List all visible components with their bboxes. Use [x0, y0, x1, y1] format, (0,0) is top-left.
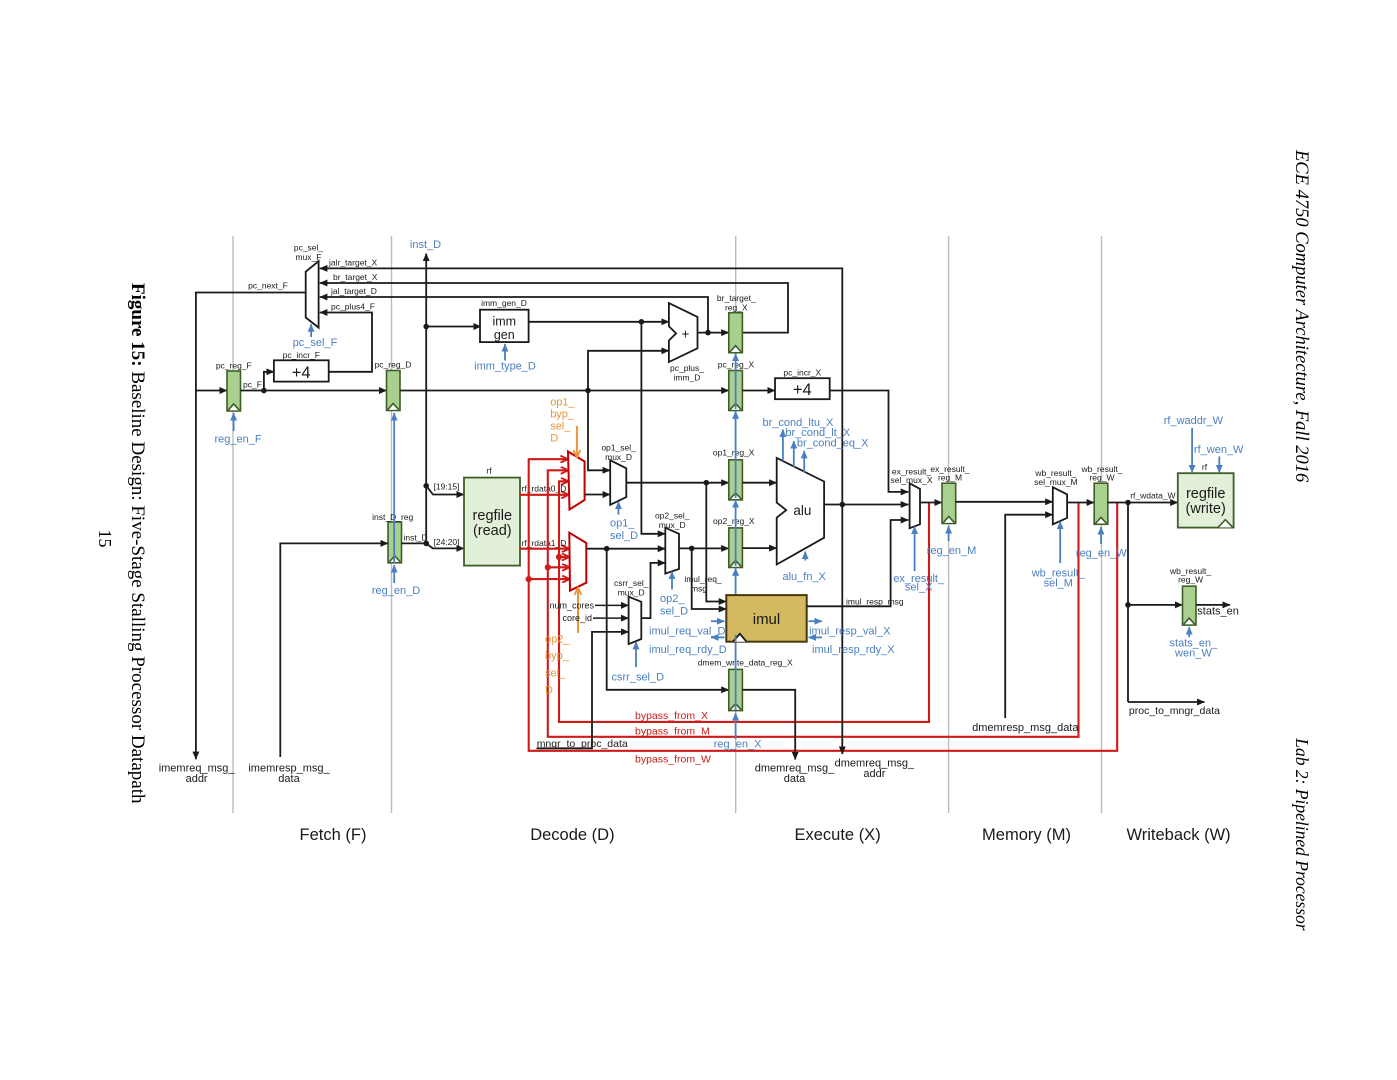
svg-text:sel_: sel_	[550, 421, 571, 433]
wire jalr_target_X	[320, 268, 843, 504]
wire core_id	[593, 617, 629, 619]
wire stats branch	[1128, 503, 1183, 703]
adder pc_incr_F	[274, 360, 329, 381]
svg-text:op2_: op2_	[545, 634, 570, 646]
svg-text:pc_sel_F: pc_sel_F	[293, 337, 338, 349]
wire inst to imm gen	[426, 326, 481, 328]
mux wb_result_sel_mux_M	[1053, 487, 1067, 524]
svg-text:core_id: core_id	[562, 613, 592, 623]
control imul_resp_rdy_X	[809, 636, 823, 638]
control reg_en_M	[948, 526, 950, 541]
stage divider Execute	[735, 236, 737, 813]
svg-text:addr: addr	[863, 768, 885, 780]
wire rs2 24:20	[426, 543, 464, 548]
svg-text:bypass_from_M: bypass_from_M	[635, 726, 710, 738]
junction op2 dmemdata tap	[604, 546, 610, 552]
wire pc_F to incr	[264, 372, 274, 391]
stage divider Fetch	[232, 236, 234, 813]
pc_sel_mux_F	[306, 261, 319, 327]
junction inst 24:20	[423, 541, 429, 547]
svg-text:sel_X: sel_X	[905, 582, 933, 594]
wire reg_M out	[956, 501, 1053, 503]
control op2_byp_sel_D	[577, 588, 579, 634]
svg-text:csrr_sel_D: csrr_sel_D	[612, 671, 665, 683]
mux op2 bypass	[569, 533, 586, 591]
svg-text:num_cores: num_cores	[549, 601, 594, 611]
control pc_sel_F	[310, 324, 312, 337]
svg-text:imm_type_D: imm_type_D	[474, 361, 536, 373]
svg-text:pc_plus4_F: pc_plus4_F	[331, 301, 375, 311]
svg-text:rf_wdata_W: rf_wdata_W	[1130, 490, 1175, 500]
svg-text:mux_F: mux_F	[296, 252, 322, 262]
wire wb mux out	[1067, 502, 1094, 504]
svg-text:mngr_to_proc_data: mngr_to_proc_data	[537, 738, 628, 750]
svg-text:(write): (write)	[1186, 501, 1226, 517]
mux op1_sel_mux_D	[610, 460, 626, 505]
wire mngr_to_proc_data	[537, 632, 629, 748]
control imul_req_val_D	[711, 620, 725, 622]
svg-text:inst_D: inst_D	[410, 239, 441, 251]
control stats_en_wen_W	[1188, 627, 1190, 637]
block imm gen	[480, 310, 529, 342]
svg-text:sel_D: sel_D	[610, 530, 638, 542]
svg-text:op1_: op1_	[550, 397, 575, 409]
svg-text:gen: gen	[494, 328, 515, 342]
junction bypass W op2	[526, 576, 532, 582]
svg-text:pc_incr_F: pc_incr_F	[283, 350, 320, 360]
control br_cond_lt_X	[793, 441, 795, 467]
junction op1 imul tap	[704, 480, 710, 486]
svg-text:imul_resp_rdy_X: imul_resp_rdy_X	[812, 644, 895, 656]
wire alu out	[824, 504, 908, 506]
svg-text:reg_X: reg_X	[725, 303, 748, 313]
svg-text:op2_reg_X: op2_reg_X	[713, 516, 755, 526]
register wb_result_reg_W stats	[1183, 586, 1197, 625]
register pc_reg_X	[729, 371, 743, 411]
svg-text:Writeback (W): Writeback (W)	[1126, 826, 1230, 844]
control reg_en_D	[393, 413, 395, 583]
register dmem_write_data_reg_X	[729, 669, 743, 710]
register inst_D_reg	[388, 522, 402, 563]
block imul	[726, 595, 806, 642]
svg-text:mux_D: mux_D	[618, 587, 645, 597]
control op2_sel_D	[671, 572, 673, 590]
svg-text:Memory (M): Memory (M)	[982, 826, 1071, 844]
adder pc_incr_X	[775, 378, 830, 399]
svg-text:[24:20]: [24:20]	[434, 537, 460, 547]
svg-text:data: data	[278, 773, 300, 785]
svg-text:reg_W: reg_W	[1178, 575, 1203, 585]
stage divider Writeback	[1101, 236, 1103, 813]
svg-text:reg_M: reg_M	[938, 473, 962, 483]
junction stats branch	[1125, 602, 1131, 608]
svg-text:imul_resp_val_X: imul_resp_val_X	[809, 625, 891, 637]
wire dmem write out	[742, 690, 795, 760]
svg-text:pc_sel_: pc_sel_	[294, 243, 324, 253]
svg-text:pc_next_F: pc_next_F	[248, 281, 288, 291]
svg-text:imul: imul	[753, 611, 781, 628]
wire reg_en_X through imul notch	[735, 635, 737, 641]
wire rf_rdata0_D	[520, 494, 569, 496]
junction inst_D to immgen	[423, 324, 429, 330]
wire bypass_from_X	[559, 481, 929, 722]
svg-text:sel_D: sel_D	[660, 606, 688, 618]
svg-text:imul_resp_msg: imul_resp_msg	[846, 596, 904, 606]
svg-text:br_cond_eq_X: br_cond_eq_X	[797, 438, 869, 450]
svg-text:reg_en_F: reg_en_F	[214, 434, 261, 446]
wire pc_F	[241, 390, 387, 392]
control alu_fn_X	[804, 552, 806, 561]
svg-text:reg_en_M: reg_en_M	[927, 545, 977, 557]
svg-text:imm: imm	[492, 315, 516, 329]
wire op1_reg to alu	[742, 482, 776, 484]
svg-text:15: 15	[95, 530, 115, 548]
svg-text:bypass_from_W: bypass_from_W	[635, 754, 711, 766]
svg-text:csrr_sel_: csrr_sel_	[614, 578, 649, 588]
stage divider Decode	[391, 236, 393, 813]
svg-text:byp_: byp_	[550, 409, 575, 421]
junction imm out	[639, 319, 645, 325]
svg-text:imul_req_val_D: imul_req_val_D	[649, 625, 725, 637]
control wb_result_sel_M	[1059, 522, 1061, 563]
svg-text:inst_D: inst_D	[404, 532, 428, 542]
register br_target_reg_X	[729, 313, 743, 353]
junction adder out	[705, 330, 711, 336]
block regfile write	[1178, 473, 1234, 527]
svg-text:op2_sel_: op2_sel_	[655, 511, 690, 521]
svg-text:imul_req_: imul_req_	[684, 574, 722, 584]
svg-text:msg: msg	[691, 584, 707, 594]
svg-text:stats_en: stats_en	[1197, 606, 1239, 618]
wire br_target_X	[320, 283, 788, 333]
wire imm out	[529, 322, 669, 534]
wire op1 to reg	[626, 482, 729, 484]
wire ex mux out	[920, 502, 942, 504]
control csrr_sel_D	[635, 642, 637, 667]
wire dmemresp_msg_data	[1005, 515, 1053, 718]
register pc_reg_D	[387, 371, 401, 411]
svg-text:rf_wen_W: rf_wen_W	[1194, 444, 1244, 456]
svg-text:+: +	[682, 327, 690, 342]
svg-text:bypass_from_X: bypass_from_X	[635, 710, 708, 722]
svg-text:op1_: op1_	[610, 518, 635, 530]
junction op2 imul tap	[689, 546, 695, 552]
wire imemresp_msg_data	[280, 543, 388, 757]
junction alu out	[840, 502, 846, 508]
wire pc_reg_X to incr	[742, 390, 775, 392]
adder pc_plus_imm_D	[669, 303, 698, 362]
svg-text:mux_D: mux_D	[659, 520, 686, 530]
svg-text:regfile: regfile	[473, 508, 513, 524]
control imm_type_D	[504, 344, 506, 361]
control ex_result_sel_X	[914, 526, 916, 571]
wire op2 bypass mux out	[586, 548, 665, 550]
svg-text:pc_incr_X: pc_incr_X	[783, 367, 821, 377]
control rf_waddr_W	[1191, 428, 1193, 473]
svg-text:+4: +4	[793, 381, 812, 399]
junction inst 19:15	[423, 483, 429, 489]
register op2_reg_X	[729, 528, 743, 568]
svg-text:data: data	[784, 773, 806, 785]
svg-text:br_target_: br_target_	[717, 293, 756, 303]
block regfile read	[464, 478, 520, 566]
svg-text:sel_: sel_	[545, 668, 566, 680]
wire op2 to imul	[692, 548, 727, 609]
svg-text:ECE 4750 Computer Architecture: ECE 4750 Computer Architecture, Fall 201…	[1291, 149, 1311, 483]
svg-text:rf: rf	[486, 466, 492, 476]
junction pc_D	[585, 388, 591, 394]
svg-text:alu_fn_X: alu_fn_X	[782, 571, 826, 583]
control op1_sel_D	[618, 502, 620, 515]
svg-text:pc_reg_D: pc_reg_D	[375, 359, 412, 369]
svg-text:Decode (D): Decode (D)	[530, 826, 614, 844]
junction rf_wdata_W	[1125, 500, 1131, 506]
svg-text:reg_en_W: reg_en_W	[1076, 547, 1127, 559]
svg-text:(read): (read)	[473, 523, 512, 539]
wire stats_en	[1196, 604, 1230, 606]
svg-text:pc_plus_: pc_plus_	[670, 363, 704, 373]
wire rs1 19:15	[426, 486, 464, 495]
svg-text:rf_waddr_W: rf_waddr_W	[1164, 415, 1224, 427]
junction bypass M op2	[545, 564, 551, 570]
register op1_reg_X	[729, 460, 743, 500]
svg-text:reg_en_D: reg_en_D	[372, 585, 420, 597]
svg-text:regfile: regfile	[1186, 486, 1226, 502]
svg-text:op2_: op2_	[660, 593, 685, 605]
svg-text:addr: addr	[186, 773, 208, 785]
wire bypass_from_W	[529, 459, 1117, 751]
register ex_result_reg_M	[942, 483, 956, 523]
alu	[777, 458, 824, 565]
control rf_wen_W	[1218, 457, 1220, 473]
register wb_result_reg_W	[1094, 483, 1108, 524]
svg-text:mux_D: mux_D	[605, 452, 632, 462]
svg-text:Execute (X): Execute (X)	[794, 826, 880, 844]
register pc_reg_F	[227, 371, 241, 411]
wire rf_wdata_W	[1108, 502, 1178, 504]
wire pc_D row	[400, 390, 729, 392]
svg-text:wen_W: wen_W	[1174, 648, 1212, 660]
svg-text:[19:15]: [19:15]	[434, 482, 460, 492]
wire rf_rdata1_D	[520, 548, 569, 550]
control br_cond_ltu_X	[782, 430, 784, 461]
mux csrr_sel_mux_D	[629, 597, 642, 644]
wire num_cores	[595, 604, 629, 606]
mux op2_sel_mux_D	[665, 528, 679, 574]
control reg_en_X	[735, 354, 737, 740]
svg-text:pc_F: pc_F	[243, 380, 262, 390]
wire proc_to_mngr_data	[1128, 701, 1205, 703]
wire inst_D vertical	[402, 254, 427, 544]
svg-text:proc_to_mngr_data: proc_to_mngr_data	[1129, 705, 1220, 717]
control op1_byp_sel_D	[576, 426, 578, 458]
control imul_resp_val_X	[809, 620, 823, 622]
svg-text:op1_reg_X: op1_reg_X	[713, 448, 755, 458]
junction bypass X op2	[556, 554, 562, 560]
svg-text:dmem_write_data_reg_X: dmem_write_data_reg_X	[698, 657, 793, 667]
svg-text:sel_M: sel_M	[1044, 578, 1073, 590]
wire dmemreq_msg_addr	[841, 505, 843, 755]
mux op1 bypass	[568, 452, 585, 510]
svg-text:imm_D: imm_D	[674, 373, 701, 383]
wire imul_resp_msg	[807, 520, 909, 606]
svg-text:dmemresp_msg_data: dmemresp_msg_data	[972, 722, 1079, 734]
stage divider Memory	[948, 236, 950, 813]
svg-text:br_target_X: br_target_X	[333, 272, 378, 282]
wire op1 bypass mux out	[585, 494, 611, 496]
wire jal_target_D	[320, 297, 708, 333]
wire pc_plus4_F	[320, 313, 372, 372]
wire op2_reg to alu	[742, 547, 776, 549]
junction pc_F	[261, 388, 267, 394]
svg-text:sel_mux_X: sel_mux_X	[890, 475, 932, 485]
svg-text:reg_en_X: reg_en_X	[714, 739, 762, 751]
control reg_en_F	[233, 413, 235, 431]
svg-text:inst_D_reg: inst_D_reg	[372, 512, 413, 522]
wire dmem write data	[607, 549, 729, 690]
svg-text:rf: rf	[1202, 462, 1208, 472]
svg-text:pc_reg_F: pc_reg_F	[216, 361, 252, 371]
wire pc_next_F	[196, 293, 306, 760]
wire op2 to reg	[679, 547, 729, 549]
mux ex_result_sel_mux_X	[910, 483, 920, 528]
control br_cond_eq_X	[803, 451, 805, 473]
svg-text:reg_W: reg_W	[1089, 473, 1114, 483]
svg-text:D: D	[545, 685, 553, 697]
svg-text:Fetch (F): Fetch (F)	[300, 826, 367, 844]
svg-text:alu: alu	[793, 503, 811, 518]
wire adder out	[698, 332, 729, 334]
svg-text:imul_req_rdy_D: imul_req_rdy_D	[649, 644, 727, 656]
svg-text:Lab 2: Pipelined Processor: Lab 2: Pipelined Processor	[1292, 737, 1312, 931]
svg-text:Figure 15: Baseline Design: Fi: Figure 15: Baseline Design: Five-Stage S…	[127, 283, 148, 804]
wire pc to adder and op1mux	[588, 351, 669, 471]
svg-text:jalr_target_X: jalr_target_X	[328, 258, 378, 268]
svg-text:D: D	[550, 433, 558, 445]
svg-text:+4: +4	[292, 364, 311, 382]
wire op1 to imul	[706, 483, 726, 602]
wire pc_plus4_X	[830, 391, 909, 492]
svg-text:byp_: byp_	[545, 650, 570, 662]
svg-text:imm_gen_D: imm_gen_D	[481, 298, 527, 308]
wire bypass_from_M	[548, 470, 1079, 737]
svg-text:sel_mux_M: sel_mux_M	[1034, 477, 1077, 487]
svg-text:op1_sel_: op1_sel_	[601, 443, 636, 453]
svg-text:jal_target_D: jal_target_D	[330, 286, 377, 296]
control reg_en_W	[1100, 527, 1102, 544]
control imul_req_rdy_D	[711, 636, 725, 638]
wire csrr out	[641, 563, 665, 618]
